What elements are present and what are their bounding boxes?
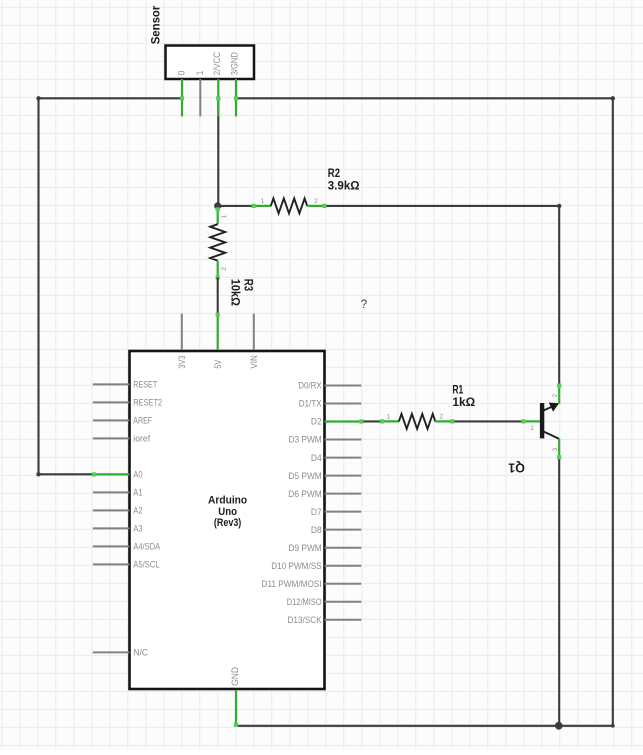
wire top-right horizontal <box>236 97 613 99</box>
arduino pin ioref label <box>133 434 150 444</box>
node bendpoint bottom-right <box>611 724 615 728</box>
svg-text:D9 PWM: D9 PWM <box>289 543 322 553</box>
arduino pin A1 <box>93 491 130 493</box>
svg-text:D4: D4 <box>311 453 322 463</box>
transistor Q1 collector pin <box>557 384 561 404</box>
resistor R1 zigzag <box>399 414 435 429</box>
resistor R1 pin 2 number <box>439 414 443 421</box>
svg-text:2: 2 <box>314 198 318 205</box>
resistor R3 value label <box>228 279 253 306</box>
arduino title <box>208 495 247 530</box>
svg-text:D10 PWM/SS: D10 PWM/SS <box>271 561 322 571</box>
svg-text:1: 1 <box>261 198 265 205</box>
arduino pin D2 label <box>311 417 322 427</box>
arduino pin D0/RX label <box>298 381 322 391</box>
svg-text:D7: D7 <box>311 507 322 517</box>
svg-text:2/VCC: 2/VCC <box>212 52 222 75</box>
arduino pin D6 PWM <box>325 493 362 495</box>
arduino pin D6 PWM label <box>288 489 321 499</box>
node junction VCC divider <box>214 202 221 209</box>
sensor pin 0 label <box>177 71 187 76</box>
arduino Uno body <box>130 351 325 689</box>
svg-text:A3: A3 <box>133 524 142 534</box>
arduino pin D3 PWM label <box>289 435 322 445</box>
arduino pin D13/SCK label <box>288 615 323 625</box>
sensor pin 2/VCC <box>216 79 220 116</box>
arduino pin D4 label <box>311 453 322 463</box>
svg-text:?: ? <box>361 299 367 311</box>
arduino pin A4/SDA label <box>133 542 160 552</box>
svg-text:D13/SCK: D13/SCK <box>288 615 323 625</box>
arduino pin AREF label <box>133 416 152 426</box>
svg-text:D8: D8 <box>311 525 322 535</box>
arduino pin VIN <box>253 314 255 350</box>
arduino pin A2 <box>93 509 130 511</box>
svg-text:D11 PWM/MOSI: D11 PWM/MOSI <box>262 579 322 589</box>
svg-text:A2: A2 <box>133 506 142 516</box>
arduino pin ioref <box>93 437 130 439</box>
resistor R1 value label <box>452 385 475 410</box>
resistor R1 lead 2 <box>435 419 454 423</box>
svg-text:D3 PWM: D3 PWM <box>289 435 322 445</box>
arduino pin D10 PWM/SS label <box>271 561 322 571</box>
arduino pin A0 <box>92 472 130 476</box>
arduino pin D3 PWM <box>325 439 362 441</box>
svg-text:1: 1 <box>387 414 391 421</box>
resistor R2 value label <box>328 168 360 193</box>
svg-text:D5 PWM: D5 PWM <box>289 471 322 481</box>
svg-text:0: 0 <box>177 71 187 76</box>
sensor label <box>149 5 163 44</box>
arduino pin A2 label <box>133 506 142 516</box>
wire to A0 <box>39 473 93 475</box>
arduino pin N/C label <box>133 648 148 658</box>
svg-text:ioref: ioref <box>133 434 150 444</box>
node bendpoint R2 corner <box>557 204 561 208</box>
wire junction to R2 <box>218 205 253 207</box>
svg-text:3V3: 3V3 <box>177 356 187 369</box>
svg-text:GND: GND <box>230 667 240 686</box>
arduino pin D5 PWM <box>325 475 362 477</box>
transistor Q1 pin 2 number <box>552 394 559 398</box>
arduino pin RESET <box>93 383 130 385</box>
svg-text:AREF: AREF <box>133 416 152 426</box>
transistor Q1 pin 1 number <box>530 425 534 432</box>
svg-text:Arduino: Arduino <box>208 495 247 507</box>
resistor R3 lead 1 <box>216 207 220 224</box>
arduino pin D1/TX label <box>299 399 322 409</box>
svg-text:(Rev3): (Rev3) <box>214 517 242 529</box>
transistor Q1 base bar <box>540 403 544 438</box>
arduino pin D1/TX <box>325 403 362 405</box>
wire Q1 emitter down to ground rail <box>558 457 560 726</box>
wire sensor VCC to junction <box>217 98 219 206</box>
transistor Q1 base lead <box>521 419 540 423</box>
svg-text:D1/TX: D1/TX <box>299 399 322 409</box>
arduino pin D8 <box>325 529 362 531</box>
arduino pin D12/MISO label <box>287 597 322 607</box>
svg-text:Uno: Uno <box>218 506 237 518</box>
sensor pin 3/GND label <box>230 52 240 75</box>
svg-text:3/GND: 3/GND <box>230 52 240 75</box>
node bendpoint left-bottom <box>36 472 40 476</box>
svg-text:3.9kΩ: 3.9kΩ <box>328 181 360 193</box>
resistor R1 lead 1 <box>380 419 399 423</box>
svg-text:10kΩ: 10kΩ <box>228 279 240 306</box>
arduino pin 3V3 label <box>177 356 187 369</box>
svg-text:1: 1 <box>195 71 205 76</box>
arduino pin D8 label <box>311 525 322 535</box>
svg-text:N/C: N/C <box>133 648 148 658</box>
resistor R2 pin 1 number <box>261 198 265 205</box>
unknown net question mark <box>361 299 367 311</box>
arduino pin D9 PWM <box>325 547 362 549</box>
arduino pin D7 label <box>311 507 322 517</box>
svg-text:D12/MISO: D12/MISO <box>287 597 322 607</box>
arduino pin RESET2 label <box>133 398 162 408</box>
arduino pin A1 label <box>133 488 142 498</box>
transistor Q1 collector stroke with arrow <box>544 403 559 412</box>
arduino pin D11 PWM/MOSI label <box>262 579 322 589</box>
resistor R3 pin 2 number <box>221 267 228 271</box>
sensor pin 2/VCC label <box>212 52 222 75</box>
resistor R3 lead 2 <box>216 261 220 280</box>
svg-text:1kΩ: 1kΩ <box>452 397 475 409</box>
arduino pin D9 PWM label <box>289 543 322 553</box>
svg-text:1: 1 <box>221 215 228 219</box>
arduino pin D10 PWM/SS <box>325 565 362 567</box>
arduino pin A5/SCL <box>93 563 130 565</box>
svg-text:D6 PWM: D6 PWM <box>288 489 321 499</box>
arduino pin RESET label <box>133 380 157 390</box>
transistor Q1 emitter pin <box>557 439 561 459</box>
arduino pin VIN label <box>249 355 259 369</box>
svg-text:1: 1 <box>530 425 534 432</box>
svg-text:3: 3 <box>552 448 559 452</box>
resistor R3 zigzag <box>210 224 225 260</box>
svg-text:2: 2 <box>552 394 559 398</box>
arduino pin A0 label <box>133 470 142 480</box>
arduino pin A3 label <box>133 524 142 534</box>
arduino pin A4/SDA <box>93 545 130 547</box>
svg-text:RESET2: RESET2 <box>133 398 162 408</box>
wire R3 to 5V pin <box>217 277 219 313</box>
arduino pin N/C <box>93 651 130 653</box>
svg-text:A5/SCL: A5/SCL <box>133 560 159 570</box>
resistor R2 lead 1 <box>252 204 271 208</box>
arduino pin GND <box>234 690 238 727</box>
wire corner down to Q1 collector <box>558 206 560 385</box>
wire top-left horizontal <box>39 97 183 99</box>
sensor body <box>166 46 255 80</box>
svg-text:Q1: Q1 <box>508 461 525 475</box>
node junction emitter-ground <box>555 722 563 730</box>
wire R1 to Q1 base <box>453 420 522 422</box>
transistor Q1 label <box>508 461 525 475</box>
wire D2 to R1 <box>361 420 381 422</box>
svg-text:A0: A0 <box>133 470 142 480</box>
svg-text:RESET: RESET <box>133 380 157 390</box>
sensor pin 1 <box>199 79 201 116</box>
svg-text:2: 2 <box>439 414 443 421</box>
resistor R1 pin 1 number <box>387 414 391 421</box>
svg-text:R3: R3 <box>242 279 254 291</box>
arduino pin 5V label <box>213 359 223 368</box>
svg-text:D0/RX: D0/RX <box>298 381 322 391</box>
transistor Q1 emitter stroke <box>544 432 560 439</box>
svg-text:2: 2 <box>221 267 228 271</box>
wire bottom ground rail <box>236 725 613 727</box>
arduino pin D0/RX <box>325 385 362 387</box>
node bendpoint top-left <box>36 96 40 100</box>
arduino pin RESET2 <box>93 401 130 403</box>
arduino pin A5/SCL label <box>133 560 159 570</box>
arduino pin D4 <box>325 457 362 459</box>
wire R2 to right corner <box>325 205 559 207</box>
sensor pin 0 <box>180 79 184 116</box>
arduino pin D12/MISO <box>325 601 362 603</box>
arduino pin GND label <box>230 667 240 686</box>
svg-text:A1: A1 <box>133 488 142 498</box>
sensor pin 1 label <box>195 71 205 76</box>
arduino pin D7 <box>325 511 362 513</box>
arduino pin D2 <box>325 419 364 423</box>
arduino pin D5 PWM label <box>289 471 322 481</box>
wire left vertical <box>37 98 39 474</box>
svg-text:A4/SDA: A4/SDA <box>133 542 160 552</box>
resistor R2 zigzag <box>271 198 307 213</box>
svg-text:Sensor: Sensor <box>149 5 163 44</box>
svg-text:5V: 5V <box>213 359 223 368</box>
svg-text:R2: R2 <box>328 168 340 180</box>
arduino pin AREF <box>93 419 130 421</box>
resistor R2 lead 2 <box>307 204 326 208</box>
node bendpoint top-right <box>611 96 615 100</box>
transistor Q1 pin 3 number <box>552 448 559 452</box>
wire right vertical <box>612 98 614 726</box>
resistor R2 pin 2 number <box>314 198 318 205</box>
svg-text:D2: D2 <box>311 417 322 427</box>
arduino pin A3 <box>93 527 130 529</box>
svg-text:VIN: VIN <box>249 355 259 369</box>
arduino pin D11 PWM/MOSI <box>325 583 362 585</box>
arduino pin D13/SCK <box>325 619 362 621</box>
arduino pin 3V3 <box>181 314 183 350</box>
sensor pin 3/GND <box>234 79 238 116</box>
arduino pin 5V <box>216 313 220 350</box>
resistor R3 pin 1 number <box>221 215 228 219</box>
svg-text:R1: R1 <box>452 385 463 397</box>
